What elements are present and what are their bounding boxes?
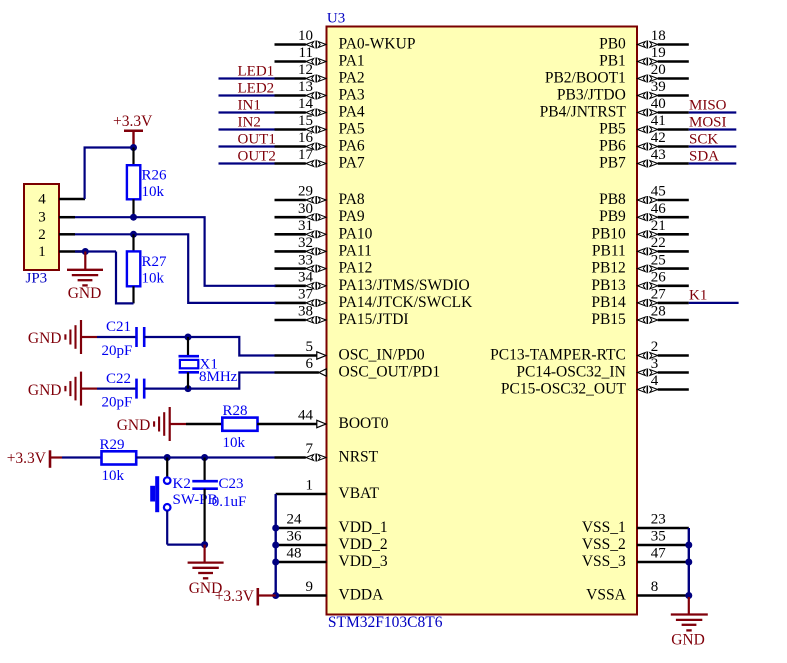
svg-text:BOOT0: BOOT0 (339, 415, 389, 432)
pin 37 (PA14/JTCK/SWCLK) (275, 287, 474, 311)
pin 40 (PB4/JNTRST) (540, 96, 689, 120)
pin 23 (VSS_1) (582, 512, 689, 536)
wire JP3 pin4 to +3.3V rail (85, 148, 134, 200)
wire R26 bottom lead (132, 199, 134, 217)
svg-text:PB0: PB0 (599, 36, 626, 53)
+3.3V label (NRST) (7, 450, 47, 467)
JP3 designator (26, 271, 48, 287)
svg-text:5: 5 (306, 339, 314, 355)
R28 value 10k (223, 435, 246, 451)
wire +3.3V to R29 (62, 456, 102, 458)
svg-text:13: 13 (298, 79, 313, 95)
wire junction to PA14 pin37 (134, 234, 276, 303)
pin 18 (PB0) (599, 28, 689, 52)
wire net IN1 (219, 111, 275, 113)
resistor R29 (102, 451, 137, 464)
svg-text:PA7: PA7 (339, 155, 365, 172)
wire VDD rail (275, 494, 277, 596)
GND label (below C23) (189, 580, 223, 597)
svg-text:26: 26 (651, 270, 667, 286)
svg-text:6: 6 (306, 356, 314, 372)
svg-text:23: 23 (651, 512, 666, 528)
svg-text:PA13/JTMS/SWDIO: PA13/JTMS/SWDIO (339, 277, 470, 294)
svg-text:PA2: PA2 (339, 70, 365, 87)
svg-text:VSS_2: VSS_2 (582, 536, 626, 553)
svg-text:28: 28 (651, 304, 666, 320)
svg-text:21: 21 (651, 218, 666, 234)
svg-text:12: 12 (298, 62, 313, 78)
svg-text:+3.3V: +3.3V (7, 450, 47, 467)
capacitor C22 (137, 379, 145, 399)
svg-text:+3.3V: +3.3V (215, 588, 255, 605)
wire C21 to OSC_IN (144, 337, 274, 356)
svg-text:PB4/JNTRST: PB4/JNTRST (540, 104, 627, 121)
GND label (below JP3) (68, 285, 102, 302)
svg-text:PB8: PB8 (599, 191, 626, 208)
svg-text:GND: GND (671, 632, 705, 649)
svg-text:2: 2 (38, 227, 46, 243)
K2 value SW-PB (173, 492, 218, 508)
node IN1 net label (238, 97, 261, 113)
svg-text:7: 7 (306, 441, 314, 457)
junction VDD_3 (272, 559, 279, 566)
R26 value 10k (142, 184, 165, 200)
svg-text:41: 41 (651, 113, 666, 129)
svg-text:34: 34 (298, 270, 314, 286)
C22 value 20pF (102, 395, 133, 411)
pin 41 (PB5) (599, 113, 689, 137)
svg-text:14: 14 (298, 96, 314, 112)
pin 44 (BOOT0) (275, 408, 389, 432)
svg-text:10k: 10k (142, 184, 165, 200)
capacitor C23 (192, 458, 218, 545)
svg-text:PB1: PB1 (599, 53, 626, 70)
pin 46 (PB9) (599, 201, 689, 225)
svg-text:GND: GND (117, 417, 151, 434)
svg-text:1: 1 (38, 244, 46, 260)
svg-text:IN1: IN1 (238, 97, 261, 113)
svg-text:38: 38 (298, 304, 313, 320)
pin 4 (PC15-OSC32_OUT) (501, 373, 689, 397)
svg-text:GND: GND (68, 285, 102, 302)
crystal X1 (179, 337, 200, 389)
pin 47 (VSS_3) (582, 546, 689, 570)
svg-text:C22: C22 (106, 371, 131, 387)
svg-text:39: 39 (651, 79, 666, 95)
svg-text:OUT2: OUT2 (238, 148, 276, 164)
svg-text:24: 24 (287, 512, 303, 528)
pin 17 (PA7) (275, 147, 365, 171)
C21 value 20pF (102, 343, 133, 359)
wire net OUT2 (219, 162, 275, 164)
svg-text:37: 37 (298, 287, 314, 303)
svg-text:42: 42 (651, 130, 666, 146)
svg-text:OSC_OUT/PD1: OSC_OUT/PD1 (339, 364, 441, 381)
switch K2 (150, 458, 170, 545)
wire net LED1 (219, 77, 275, 79)
wire GND to R28 (186, 423, 222, 426)
svg-text:46: 46 (651, 201, 667, 217)
wire JP3 pin3 to junction (75, 216, 134, 218)
svg-text:20: 20 (651, 62, 666, 78)
U3 value STM32F103C8T6 (328, 614, 443, 631)
junction NRST/C23 (201, 454, 208, 461)
svg-text:VDD_1: VDD_1 (339, 519, 388, 536)
pin 48 (VDD_3) (276, 546, 388, 570)
pin 32 (PA11) (275, 235, 372, 259)
svg-text:30: 30 (298, 201, 313, 217)
svg-text:VBAT: VBAT (339, 485, 380, 502)
resistor R28 (222, 418, 257, 431)
C23 designator (219, 476, 244, 492)
svg-text:48: 48 (287, 546, 302, 562)
svg-text:VSS_1: VSS_1 (582, 519, 626, 536)
svg-text:PB9: PB9 (599, 208, 626, 225)
ground (C21) (65, 320, 97, 354)
node OUT2 net label (238, 148, 276, 164)
capacitor C21 (137, 327, 145, 347)
junction VDDA (272, 592, 279, 599)
svg-text:JP3: JP3 (26, 271, 48, 287)
svg-text:C21: C21 (106, 319, 131, 335)
svg-text:LED1: LED1 (238, 63, 275, 79)
svg-text:45: 45 (651, 184, 666, 200)
svg-text:PA8: PA8 (339, 191, 365, 208)
wire R29 to NRST (136, 456, 274, 458)
svg-text:8MHz: 8MHz (199, 369, 238, 385)
svg-text:25: 25 (651, 252, 666, 268)
svg-text:PB15: PB15 (591, 311, 626, 328)
+3.3V label (VDDA) (215, 588, 255, 605)
pin 45 (PB8) (599, 184, 689, 208)
svg-text:NRST: NRST (339, 449, 379, 466)
wire R27 top lead (132, 234, 134, 251)
svg-text:29: 29 (298, 184, 313, 200)
wire junction to PA13 pin34 (134, 217, 276, 286)
U3 designator (327, 11, 345, 27)
wire GND to C22 (97, 388, 137, 390)
wire net IN2 (219, 128, 275, 130)
svg-text:PC15-OSC32_OUT: PC15-OSC32_OUT (501, 381, 626, 398)
ground (BOOT0) (154, 407, 186, 441)
pin 30 (PA9) (275, 201, 365, 225)
C21 designator (106, 319, 131, 335)
R29 designator (100, 437, 125, 453)
svg-text:4: 4 (651, 373, 659, 389)
wire R28 to BOOT0 (257, 423, 274, 425)
svg-text:VSSA: VSSA (586, 587, 626, 604)
power +3.3V (top bar) (124, 131, 143, 148)
svg-text:PA10: PA10 (339, 225, 373, 242)
svg-text:R27: R27 (142, 254, 168, 270)
node LED1 net label (238, 63, 275, 79)
svg-text:2: 2 (651, 339, 659, 355)
C22 designator (106, 371, 131, 387)
JP3 pin 4 stub (59, 198, 85, 201)
svg-text:31: 31 (298, 218, 313, 234)
svg-text:0.1uF: 0.1uF (212, 494, 247, 510)
pin 34 (PA13/JTMS/SWDIO) (275, 270, 470, 294)
pin 27 (PB14) (591, 287, 688, 311)
svg-text:GND: GND (28, 382, 62, 399)
svg-text:11: 11 (299, 45, 313, 61)
svg-text:18: 18 (651, 28, 666, 44)
junction +3.3V/R26 (130, 144, 137, 151)
pin 43 (PB7) (599, 147, 689, 171)
pin 31 (PA10) (275, 218, 373, 242)
junction NRST/K2 (164, 454, 171, 461)
pin 7 (NRST) (275, 441, 379, 465)
svg-text:17: 17 (298, 147, 314, 163)
pin 39 (PB3/JTDO) (557, 79, 689, 103)
GND label (C22) (28, 382, 62, 399)
node MOSI net label (689, 114, 727, 130)
pin 5 (OSC_IN/PD0) (275, 339, 425, 363)
pin 35 (VSS_2) (582, 529, 689, 553)
wire net MISO (689, 111, 737, 113)
svg-text:IN2: IN2 (238, 114, 261, 130)
power +3.3V (NRST) (50, 450, 62, 468)
svg-text:U3: U3 (327, 11, 345, 27)
svg-text:16: 16 (298, 130, 314, 146)
GND label (BOOT0) (117, 417, 151, 434)
wire net LED2 (219, 94, 275, 96)
pin 2 (PC13-TAMPER-RTC) (490, 339, 689, 363)
svg-text:PA11: PA11 (339, 242, 372, 259)
svg-text:PB14: PB14 (591, 294, 626, 311)
svg-text:PC14-OSC32_IN: PC14-OSC32_IN (516, 364, 625, 381)
svg-text:+3.3V: +3.3V (113, 113, 153, 130)
JP3 pin 2 stub (59, 233, 75, 236)
svg-text:LED2: LED2 (238, 80, 275, 96)
node IN2 net label (238, 114, 261, 130)
svg-text:36: 36 (287, 529, 303, 545)
svg-text:MOSI: MOSI (689, 114, 727, 130)
svg-text:19: 19 (651, 45, 666, 61)
junction VDD_2 (272, 542, 279, 549)
pin 29 (PA8) (275, 184, 365, 208)
svg-text:8: 8 (651, 579, 659, 595)
svg-text:PA6: PA6 (339, 138, 365, 155)
wire R27 bottom lead (132, 286, 134, 303)
svg-text:20pF: 20pF (102, 395, 133, 411)
connector JP3 (24, 184, 59, 270)
svg-text:15: 15 (298, 113, 313, 129)
pin 1 (VBAT) (276, 478, 380, 502)
svg-text:3: 3 (651, 356, 659, 372)
pin 19 (PB1) (599, 45, 689, 69)
pin 21 (PB10) (591, 218, 688, 242)
svg-text:R28: R28 (223, 403, 248, 419)
svg-text:43: 43 (651, 147, 666, 163)
IC U3 STM32F103C8T6 body (327, 27, 638, 615)
junction R26/JP3.3 (130, 214, 137, 221)
svg-text:PA4: PA4 (339, 104, 365, 121)
junction JP3.1/GND (82, 248, 89, 255)
svg-text:SDA: SDA (689, 148, 719, 164)
wire net SDA (689, 162, 737, 164)
svg-text:VDD_3: VDD_3 (339, 553, 388, 570)
GND label (C21) (28, 330, 62, 347)
pin 8 (VSSA) (586, 579, 689, 603)
svg-text:VDD_2: VDD_2 (339, 536, 388, 553)
svg-text:PB11: PB11 (592, 242, 626, 259)
power +3.3V (VDDA) (258, 588, 276, 606)
svg-text:PA1: PA1 (339, 53, 365, 70)
svg-text:PB6: PB6 (599, 138, 626, 155)
pin 6 (OSC_OUT/PD1) (275, 356, 441, 380)
svg-text:33: 33 (298, 252, 313, 268)
svg-text:PA5: PA5 (339, 121, 365, 138)
pin 28 (PB15) (591, 304, 688, 328)
pin 9 (VDDA) (276, 579, 384, 603)
svg-text:27: 27 (651, 287, 667, 303)
wire K2 to C23 bottom (167, 543, 204, 545)
svg-text:R29: R29 (100, 437, 125, 453)
ground (below JP3) (67, 252, 103, 286)
R27 value 10k (142, 270, 165, 286)
svg-text:PA0-WKUP: PA0-WKUP (339, 36, 416, 53)
junction R27/JP3.2 (130, 231, 137, 238)
wire JP3 pin1 to R27 bottom (116, 252, 134, 304)
pin 14 (PA4) (275, 96, 365, 120)
pin 33 (PA12) (275, 252, 373, 276)
svg-text:PB5: PB5 (599, 121, 626, 138)
svg-text:20pF: 20pF (102, 343, 133, 359)
R28 designator (223, 403, 248, 419)
pin 3 (PC14-OSC32_IN) (516, 356, 688, 380)
pin 12 (PA2) (275, 62, 365, 86)
svg-text:PB12: PB12 (591, 260, 625, 277)
pin 38 (PA15/JTDI) (275, 304, 409, 328)
svg-text:OUT1: OUT1 (238, 131, 276, 147)
svg-text:PA9: PA9 (339, 208, 365, 225)
svg-text:PB3/JTDO: PB3/JTDO (557, 87, 626, 104)
node LED2 net label (238, 80, 275, 96)
wire net SCK (689, 145, 737, 147)
svg-text:GND: GND (28, 330, 62, 347)
svg-text:SCK: SCK (689, 131, 718, 147)
C23 value 0.1uF (212, 494, 247, 510)
JP3 pin 3 stub (59, 216, 75, 219)
svg-text:32: 32 (298, 235, 313, 251)
pin 10 (PA0-WKUP) (275, 28, 416, 52)
svg-text:R26: R26 (142, 168, 168, 184)
GND label (VSS) (671, 632, 705, 649)
svg-text:10k: 10k (223, 435, 246, 451)
pin 15 (PA5) (275, 113, 365, 137)
JP3 pin 1 stub (59, 250, 85, 253)
svg-text:VDDA: VDDA (339, 587, 385, 604)
svg-text:PA12: PA12 (339, 260, 373, 277)
pin 16 (PA6) (275, 130, 365, 154)
svg-text:K1: K1 (689, 288, 707, 304)
svg-text:9: 9 (306, 579, 314, 595)
svg-text:PA14/JTCK/SWCLK: PA14/JTCK/SWCLK (339, 294, 474, 311)
svg-text:22: 22 (651, 235, 666, 251)
ground (C22) (65, 372, 97, 406)
resistor R26 (127, 165, 140, 199)
svg-text:4: 4 (38, 192, 46, 208)
pin 22 (PB11) (592, 235, 689, 259)
wire JP3 pin2 to junction (75, 233, 134, 235)
pin 11 (PA1) (275, 45, 365, 69)
junction VSS_2 (685, 542, 692, 549)
wire GND to C21 (97, 336, 137, 338)
X1 value 8MHz (199, 369, 238, 385)
svg-text:10k: 10k (102, 468, 125, 484)
svg-text:VSS_3: VSS_3 (582, 553, 626, 570)
svg-text:47: 47 (651, 546, 667, 562)
X1 designator (200, 356, 218, 372)
ground (below C23) (188, 545, 224, 579)
junction VDD_1 (272, 525, 279, 532)
svg-text:1: 1 (306, 478, 314, 494)
pin 20 (PB2/BOOT1) (545, 62, 689, 86)
pin 25 (PB12) (591, 252, 688, 276)
svg-text:MISO: MISO (689, 97, 727, 113)
wire net OUT1 (219, 145, 275, 147)
node SCK net label (689, 131, 718, 147)
wire JP3 pin1 (75, 250, 116, 252)
node OUT1 net label (238, 131, 276, 147)
svg-text:3: 3 (38, 210, 46, 226)
pin 42 (PB6) (599, 130, 689, 154)
svg-text:STM32F103C8T6: STM32F103C8T6 (328, 614, 443, 631)
svg-text:PB13: PB13 (591, 277, 626, 294)
R27 designator (142, 254, 168, 270)
svg-text:40: 40 (651, 96, 666, 112)
svg-text:PC13-TAMPER-RTC: PC13-TAMPER-RTC (490, 347, 626, 364)
K2 designator (173, 476, 191, 492)
junction VSS_3 (685, 559, 692, 566)
junction K2/C23/GND (201, 541, 208, 548)
junction X1 top (185, 334, 192, 341)
svg-text:C23: C23 (219, 476, 244, 492)
svg-text:PB7: PB7 (599, 155, 626, 172)
node MISO net label (689, 97, 727, 113)
+3.3V label (top) (113, 113, 153, 130)
wire C22 to OSC_OUT (144, 373, 274, 389)
svg-text:10k: 10k (142, 270, 165, 286)
svg-text:PA15/JTDI: PA15/JTDI (339, 311, 409, 328)
resistor R27 (127, 251, 140, 286)
svg-text:44: 44 (298, 408, 314, 424)
svg-text:PB2/BOOT1: PB2/BOOT1 (545, 70, 626, 87)
svg-text:K2: K2 (173, 476, 191, 492)
pin 26 (PB13) (591, 270, 688, 294)
wire R26 top lead (132, 148, 134, 166)
svg-text:10: 10 (298, 28, 313, 44)
wire net MOSI (689, 128, 737, 130)
pin 36 (VDD_2) (276, 529, 388, 553)
svg-text:OSC_IN/PD0: OSC_IN/PD0 (339, 347, 425, 364)
pin 13 (PA3) (275, 79, 365, 103)
svg-text:PA3: PA3 (339, 87, 365, 104)
pin 24 (VDD_1) (276, 512, 388, 536)
svg-text:35: 35 (651, 529, 666, 545)
junction VSSA (685, 592, 692, 599)
R29 value 10k (102, 468, 125, 484)
ground (VSS) (671, 597, 708, 630)
svg-text:SW-PB: SW-PB (173, 492, 218, 508)
wire VSS rail (688, 528, 690, 597)
node K1 net label (689, 288, 707, 304)
junction X1 bottom (185, 385, 192, 392)
wire net K1 (689, 302, 739, 304)
R26 designator (142, 168, 168, 184)
node SDA net label (689, 148, 719, 164)
